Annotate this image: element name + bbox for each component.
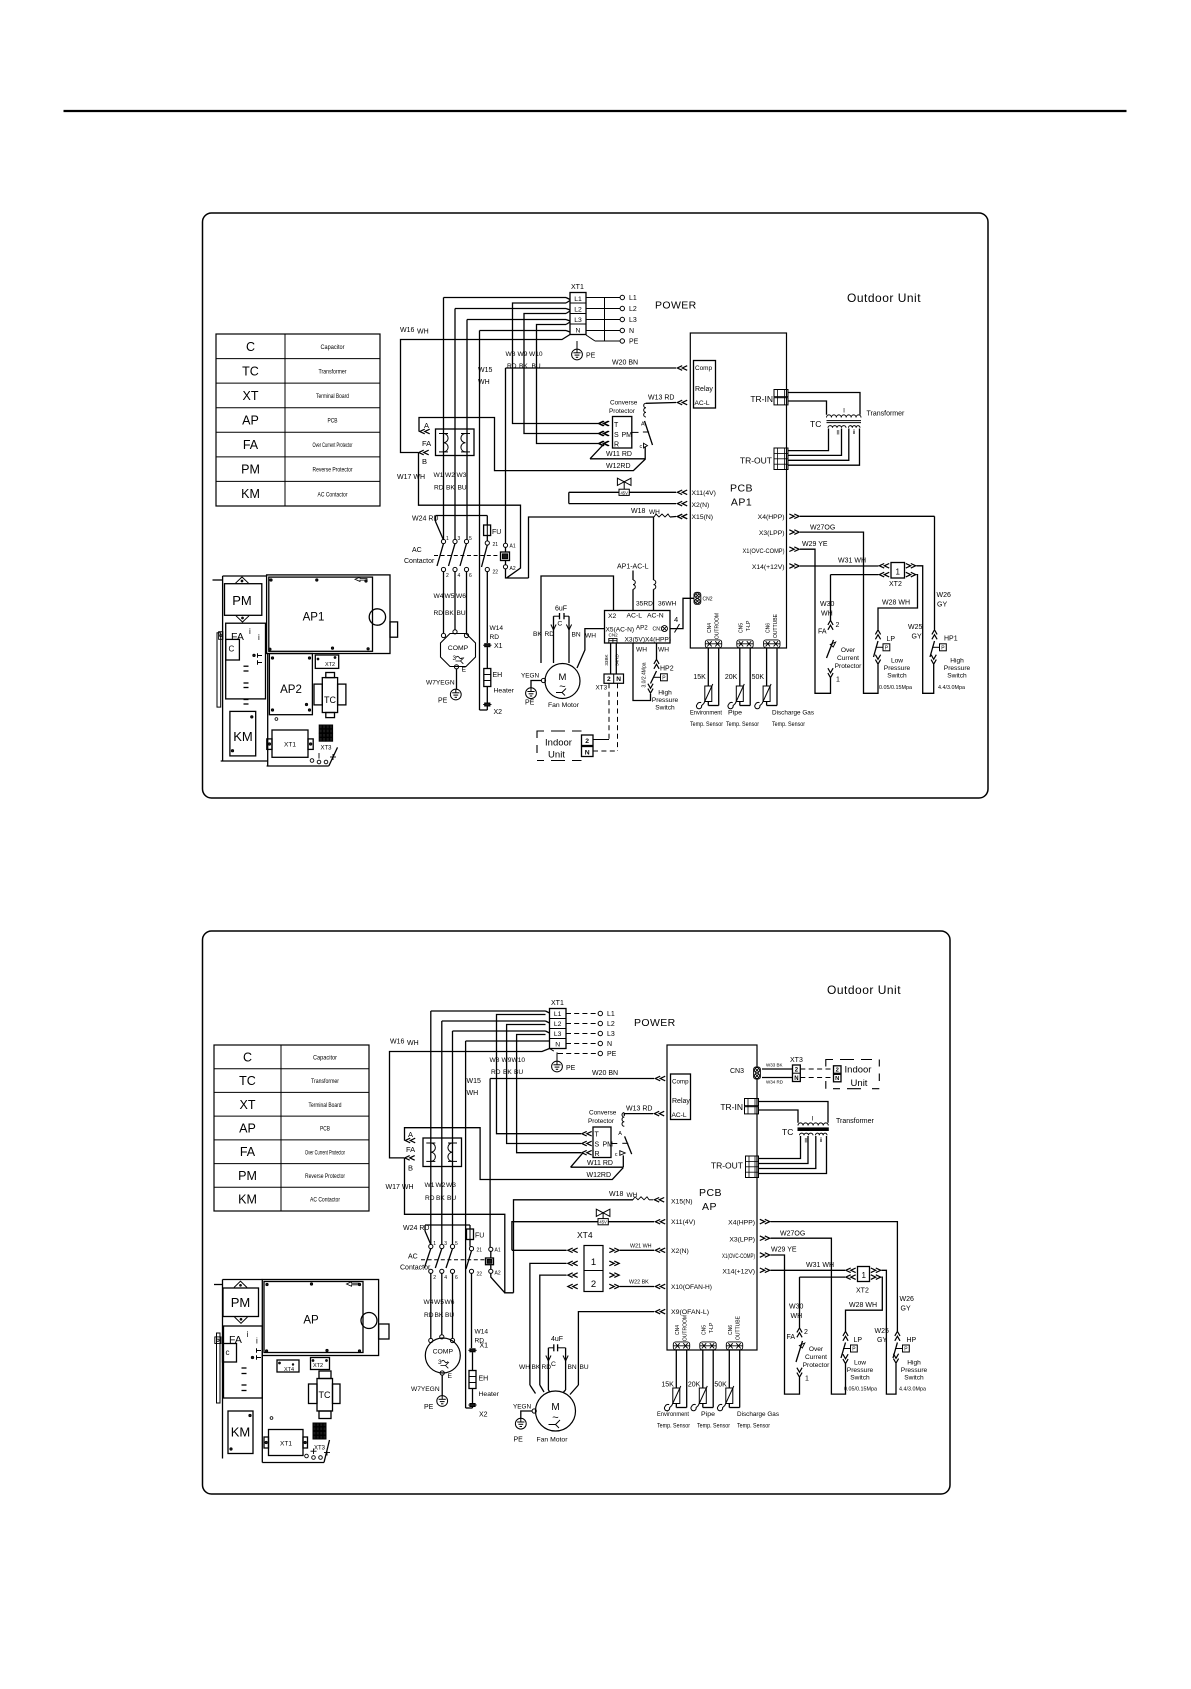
svg-text:C: C [243, 1050, 252, 1064]
svg-text:BU: BU [514, 1069, 523, 1076]
svg-text:POWER: POWER [655, 300, 697, 312]
svg-text:W1: W1 [425, 1182, 435, 1189]
svg-text:W20 BN: W20 BN [612, 360, 638, 367]
svg-text:W7YEGN: W7YEGN [426, 680, 455, 687]
svg-text:Current: Current [805, 1354, 827, 1361]
svg-text:High: High [907, 1360, 921, 1367]
svg-text:OUTTUBE: OUTTUBE [773, 613, 779, 638]
svg-text:AC-N: AC-N [647, 613, 664, 620]
svg-text:21: 21 [477, 1248, 483, 1254]
svg-text:Low: Low [854, 1360, 866, 1367]
svg-text:c: c [615, 1152, 618, 1158]
svg-text:X3(5V): X3(5V) [625, 637, 646, 644]
svg-text:HP2: HP2 [660, 666, 674, 673]
svg-text:X14(+12V): X14(+12V) [752, 564, 785, 571]
svg-text:WH: WH [585, 633, 596, 640]
svg-text:2: 2 [446, 573, 449, 579]
svg-text:FA: FA [406, 1145, 415, 1154]
svg-text:X2: X2 [479, 1412, 488, 1419]
svg-text:Reverse Protector: Reverse Protector [313, 467, 354, 474]
svg-text:FA: FA [240, 1145, 256, 1159]
svg-text:2: 2 [836, 1067, 839, 1073]
svg-text:W27OG: W27OG [780, 1231, 805, 1238]
svg-text:PE: PE [566, 1065, 576, 1072]
svg-text:1: 1 [861, 1271, 866, 1280]
svg-text:WH: WH [478, 379, 490, 386]
svg-text:21: 21 [493, 542, 499, 548]
svg-text:Unit: Unit [548, 750, 565, 761]
svg-text:RD: RD [490, 634, 500, 641]
svg-text:FA: FA [231, 631, 244, 643]
svg-text:Reverse Protector: Reverse Protector [305, 1173, 346, 1180]
svg-text:Heater: Heater [494, 688, 515, 695]
svg-text:Transformer: Transformer [311, 1078, 340, 1085]
svg-text:A1: A1 [495, 1248, 501, 1254]
svg-text:X10(OFAN-H): X10(OFAN-H) [671, 1284, 712, 1291]
svg-text:L3: L3 [574, 317, 582, 324]
svg-text:TC: TC [782, 1127, 793, 1137]
svg-text:Contactor: Contactor [400, 1265, 431, 1272]
svg-text:Converse: Converse [589, 1110, 617, 1117]
svg-text:L1: L1 [629, 295, 637, 302]
svg-text:WH: WH [821, 611, 833, 618]
svg-text:W18: W18 [631, 508, 646, 515]
svg-text:N: N [616, 676, 621, 683]
svg-text:TC: TC [324, 695, 336, 705]
svg-text:N: N [607, 1041, 612, 1048]
svg-text:AC Contactor: AC Contactor [310, 1197, 341, 1204]
svg-text:BK: BK [532, 1364, 541, 1371]
svg-text:X4(HPP): X4(HPP) [645, 637, 671, 644]
svg-text:KM: KM [241, 487, 260, 501]
svg-text:Over: Over [809, 1346, 824, 1353]
svg-text:WH: WH [467, 1090, 479, 1097]
svg-text:XT1: XT1 [551, 1000, 564, 1007]
svg-text:E: E [462, 667, 467, 674]
svg-text:FU: FU [492, 529, 501, 536]
svg-text:Comp: Comp [695, 365, 712, 372]
svg-text:AP1: AP1 [731, 497, 752, 509]
svg-text:PM: PM [241, 463, 260, 477]
svg-text:High: High [950, 658, 964, 665]
svg-text:N: N [585, 750, 590, 757]
svg-text:Outdoor Unit: Outdoor Unit [847, 291, 921, 305]
svg-text:~: ~ [559, 681, 565, 693]
svg-text:B: B [408, 1164, 413, 1173]
svg-text:W20 BN: W20 BN [592, 1070, 618, 1077]
svg-text:i: i [256, 1337, 258, 1346]
svg-text:L2: L2 [607, 1021, 615, 1028]
svg-text:N: N [629, 328, 634, 335]
svg-text:WH: WH [658, 647, 669, 654]
svg-text:Temp. Sensor: Temp. Sensor [690, 721, 724, 728]
svg-text:R: R [595, 1151, 600, 1158]
svg-text:W30: W30 [789, 1304, 804, 1311]
svg-text:TR-OUT: TR-OUT [711, 1161, 743, 1171]
svg-text:X11(4V): X11(4V) [671, 1219, 695, 1226]
svg-text:45V: 45V [620, 490, 628, 495]
svg-text:CN4: CN4 [675, 1325, 681, 1335]
svg-text:RD: RD [507, 363, 517, 370]
svg-text:LP: LP [854, 1337, 863, 1344]
svg-text:ii: ii [820, 1138, 823, 1144]
svg-text:4: 4 [444, 1275, 447, 1281]
svg-text:CN2: CN2 [703, 597, 713, 603]
svg-text:Pressure: Pressure [652, 697, 679, 704]
svg-text:OUTROOM: OUTROOM [683, 1315, 689, 1341]
svg-text:36WH: 36WH [658, 601, 677, 608]
svg-text:W2: W2 [436, 1182, 446, 1189]
svg-text:PM: PM [232, 593, 252, 608]
svg-text:1: 1 [895, 568, 900, 577]
svg-text:W31 WH: W31 WH [806, 1262, 834, 1269]
svg-text:RD: RD [542, 1364, 552, 1371]
svg-text:L2: L2 [629, 306, 637, 313]
svg-text:22: 22 [477, 1272, 483, 1278]
svg-text:5: 5 [455, 1241, 458, 1247]
svg-text:W12RD: W12RD [606, 463, 631, 470]
svg-text:PCB: PCB [699, 1187, 722, 1199]
svg-text:FA: FA [787, 1334, 796, 1341]
svg-text:W16: W16 [390, 1039, 405, 1046]
svg-text:A: A [618, 1131, 622, 1137]
svg-text:W3: W3 [457, 472, 467, 479]
svg-text:BK: BK [446, 485, 455, 492]
svg-text:PE: PE [586, 353, 596, 360]
svg-text:W28 WH: W28 WH [849, 1302, 877, 1309]
svg-text:AC-L: AC-L [695, 400, 710, 407]
svg-text:Protector: Protector [609, 408, 636, 415]
svg-text:PCB: PCB [730, 483, 753, 495]
svg-text:2: 2 [433, 1275, 436, 1281]
svg-text:TR-OUT: TR-OUT [740, 456, 772, 466]
svg-text:X15(N): X15(N) [671, 1199, 693, 1206]
svg-text:Protector: Protector [588, 1118, 615, 1125]
svg-text:WH: WH [407, 1040, 419, 1047]
svg-text:RD: RD [491, 1069, 501, 1076]
svg-text:i: i [249, 627, 251, 636]
svg-text:L3: L3 [629, 317, 637, 324]
svg-text:W14: W14 [475, 1329, 489, 1336]
svg-text:Relay: Relay [695, 386, 713, 393]
svg-text:R: R [614, 442, 619, 449]
svg-text:i: i [258, 633, 260, 642]
svg-text:W5: W5 [445, 593, 455, 600]
svg-text:XT4: XT4 [577, 1230, 593, 1240]
svg-text:TC: TC [810, 419, 821, 429]
svg-text:XT2: XT2 [313, 1363, 323, 1369]
svg-text:Capacitor: Capacitor [313, 1054, 338, 1061]
svg-text:A: A [408, 1130, 413, 1139]
svg-text:W3: W3 [446, 1182, 456, 1189]
svg-text:L1: L1 [554, 1011, 562, 1018]
svg-text:22: 22 [493, 570, 499, 576]
svg-text:A1: A1 [510, 544, 516, 550]
svg-text:PM: PM [238, 1169, 257, 1183]
svg-text:B: B [422, 457, 427, 466]
svg-text:GY: GY [912, 634, 922, 641]
svg-text:XT4: XT4 [284, 1367, 294, 1373]
svg-text:Switch: Switch [887, 673, 907, 680]
svg-text:T-LP: T-LP [746, 620, 752, 631]
svg-text:AP1: AP1 [303, 612, 325, 624]
svg-text:CN5: CN5 [739, 623, 745, 633]
svg-text:Fan Motor: Fan Motor [537, 1437, 569, 1444]
svg-text:Converse: Converse [610, 400, 638, 407]
svg-text:A2: A2 [495, 1271, 501, 1277]
svg-text:Comp: Comp [672, 1079, 689, 1086]
svg-text:CN6: CN6 [765, 623, 771, 633]
svg-text:Outdoor Unit: Outdoor Unit [827, 983, 901, 997]
svg-text:AC: AC [408, 1254, 418, 1261]
svg-text:XT3: XT3 [596, 685, 608, 692]
svg-text:BK: BK [436, 1195, 445, 1202]
svg-text:Environment: Environment [690, 710, 722, 717]
svg-text:W14: W14 [490, 625, 504, 632]
svg-text:15K: 15K [693, 674, 706, 681]
svg-text:X1: X1 [480, 1343, 489, 1350]
svg-text:2: 2 [591, 1279, 596, 1290]
svg-text:W1: W1 [434, 472, 444, 479]
svg-text:X2(N): X2(N) [692, 502, 710, 509]
svg-text:HP1: HP1 [944, 636, 958, 643]
svg-text:L3: L3 [554, 1031, 562, 1038]
svg-text:CN2: CN2 [609, 633, 619, 638]
svg-text:X1(OVC-COMP): X1(OVC-COMP) [722, 1253, 755, 1260]
svg-text:WH: WH [519, 1364, 530, 1371]
svg-text:XT3: XT3 [320, 746, 332, 752]
svg-text:W8: W8 [506, 351, 516, 358]
svg-text:Temp. Sensor: Temp. Sensor [657, 1423, 691, 1430]
svg-text:TC: TC [239, 1074, 256, 1088]
svg-text:BU: BU [457, 610, 466, 617]
svg-text:Over Current Protector: Over Current Protector [313, 442, 354, 449]
svg-text:4: 4 [674, 615, 678, 624]
svg-text:AP: AP [242, 414, 259, 428]
svg-text:W13 RD: W13 RD [626, 1106, 652, 1113]
svg-text:C: C [246, 340, 255, 354]
svg-text:50K: 50K [752, 674, 765, 681]
svg-text:PE: PE [525, 700, 535, 707]
svg-text:L2: L2 [574, 307, 582, 314]
svg-text:W27OG: W27OG [810, 525, 835, 532]
svg-text:15K: 15K [661, 1382, 674, 1389]
svg-text:FA: FA [229, 1334, 242, 1346]
svg-text:2: 2 [585, 738, 589, 745]
svg-text:W10: W10 [512, 1057, 526, 1064]
svg-text:Temp. Sensor: Temp. Sensor [737, 1423, 771, 1430]
svg-text:W29 YE: W29 YE [771, 1247, 797, 1254]
svg-text:1: 1 [591, 1257, 596, 1268]
svg-text:W10: W10 [529, 351, 543, 358]
svg-text:35RD: 35RD [636, 601, 653, 608]
svg-text:W13 RD: W13 RD [648, 395, 674, 402]
svg-text:S: S [595, 1142, 600, 1149]
svg-text:X2: X2 [608, 613, 617, 620]
svg-text:Transformer: Transformer [319, 368, 348, 375]
svg-text:PCB: PCB [320, 1126, 330, 1133]
svg-text:AP: AP [239, 1122, 256, 1136]
svg-text:W4: W4 [434, 593, 444, 600]
svg-text:PE: PE [438, 698, 448, 705]
svg-text:W15: W15 [467, 1078, 482, 1085]
svg-text:XT3: XT3 [790, 1057, 803, 1064]
svg-text:X14(+12V): X14(+12V) [722, 1268, 755, 1275]
svg-text:WH: WH [627, 1192, 638, 1199]
svg-text:X2(N): X2(N) [671, 1248, 689, 1255]
svg-text:Environment: Environment [657, 1411, 689, 1418]
svg-text:AP: AP [702, 1201, 717, 1213]
svg-text:GY: GY [937, 602, 947, 609]
svg-text:PE: PE [424, 1404, 434, 1411]
svg-text:E: E [448, 1373, 453, 1380]
svg-text:Switch: Switch [904, 1375, 924, 1382]
svg-text:ii: ii [853, 430, 856, 436]
svg-text:HP: HP [907, 1337, 917, 1344]
svg-text:T: T [595, 1132, 600, 1139]
svg-text:Over Current Protector: Over Current Protector [305, 1149, 346, 1156]
svg-text:Heater: Heater [479, 1391, 500, 1398]
svg-text:COMP: COMP [433, 1349, 454, 1356]
svg-text:Pipe: Pipe [728, 710, 742, 717]
svg-text:XT: XT [240, 1098, 256, 1112]
svg-text:COMP: COMP [448, 645, 469, 652]
svg-text:XT3: XT3 [314, 1446, 326, 1452]
svg-text:2: 2 [607, 676, 611, 683]
svg-text:WH: WH [417, 329, 429, 336]
svg-text:XT2: XT2 [856, 1288, 869, 1295]
svg-text:RD: RD [425, 1195, 435, 1202]
svg-text:Transformer: Transformer [836, 1118, 875, 1125]
svg-text:S: S [614, 432, 619, 439]
svg-text:0.05/0.15Mpa: 0.05/0.15Mpa [844, 1387, 877, 1393]
svg-text:YEGN: YEGN [521, 673, 539, 680]
svg-text:W33 BK: W33 BK [766, 1063, 783, 1068]
svg-text:I: I [812, 1116, 814, 1123]
svg-text:WH: WH [649, 509, 660, 516]
svg-text:BU: BU [580, 1364, 589, 1371]
svg-text:W26: W26 [937, 592, 952, 599]
svg-text:W34 RD: W34 RD [766, 1080, 784, 1085]
svg-text:W5: W5 [434, 1299, 444, 1306]
svg-text:Temp. Sensor: Temp. Sensor [697, 1423, 731, 1430]
svg-text:2: 2 [804, 1329, 808, 1336]
svg-text:PE: PE [607, 1051, 617, 1058]
svg-text:W24 RD: W24 RD [412, 516, 438, 523]
svg-text:W6: W6 [456, 593, 466, 600]
svg-text:Pipe: Pipe [701, 1411, 715, 1418]
svg-text:W26: W26 [900, 1296, 915, 1303]
svg-text:Terminal Board: Terminal Board [316, 393, 349, 400]
svg-text:TR-IN: TR-IN [720, 1102, 743, 1112]
svg-text:N: N [555, 1042, 560, 1049]
svg-text:W9: W9 [502, 1057, 512, 1064]
svg-text:W17 WH: W17 WH [397, 474, 425, 481]
svg-text:LP: LP [887, 636, 896, 643]
svg-text:i: i [247, 1330, 249, 1339]
svg-text:50K: 50K [714, 1382, 727, 1389]
svg-text:Pressure: Pressure [884, 665, 911, 672]
svg-text:4: 4 [458, 573, 461, 579]
svg-text:X3(LPP): X3(LPP) [729, 1236, 755, 1243]
svg-text:XT1: XT1 [280, 1441, 292, 1448]
svg-text:POWER: POWER [634, 1017, 676, 1029]
svg-text:2: 2 [836, 622, 840, 629]
svg-text:W9: W9 [518, 351, 528, 358]
svg-text:1: 1 [446, 536, 449, 542]
svg-text:20K: 20K [688, 1382, 701, 1389]
svg-text:W4: W4 [424, 1299, 434, 1306]
svg-text:W17 WH: W17 WH [386, 1184, 414, 1191]
svg-text:X4(HPP): X4(HPP) [758, 514, 785, 521]
svg-text:A: A [424, 421, 429, 430]
svg-text:L1: L1 [574, 296, 582, 303]
svg-text:OUTROOM: OUTROOM [715, 613, 721, 639]
svg-text:AP2: AP2 [636, 625, 648, 632]
svg-text:BU: BU [447, 1195, 456, 1202]
svg-text:W11 RD: W11 RD [587, 1160, 613, 1167]
svg-text:FU: FU [475, 1233, 484, 1240]
svg-text:2: 2 [795, 1068, 799, 1074]
svg-text:TC: TC [319, 1390, 331, 1400]
svg-text:AC: AC [412, 547, 422, 554]
svg-text:6uF: 6uF [555, 606, 567, 613]
svg-text:EH: EH [493, 672, 503, 679]
svg-text:W30: W30 [820, 601, 835, 608]
svg-text:CN3: CN3 [730, 1068, 744, 1075]
svg-text:CN4: CN4 [707, 623, 713, 633]
svg-text:Low: Low [891, 658, 903, 665]
svg-text:AP1-AC-L: AP1-AC-L [617, 564, 649, 571]
svg-text:RD: RD [434, 610, 444, 617]
svg-text:AC-L: AC-L [672, 1112, 687, 1119]
svg-text:X15(N): X15(N) [692, 514, 714, 521]
svg-text:N: N [576, 328, 581, 335]
svg-text:PM: PM [622, 432, 633, 439]
svg-text:KM: KM [233, 729, 253, 744]
svg-text:Pressure: Pressure [847, 1367, 874, 1374]
svg-text:WH: WH [791, 1313, 803, 1320]
svg-text:TC: TC [242, 364, 259, 378]
svg-text:c: c [226, 1348, 230, 1357]
svg-text:AP: AP [303, 1315, 319, 1327]
svg-text:BK: BK [435, 1312, 444, 1319]
svg-text:W29 YE: W29 YE [802, 541, 828, 548]
svg-text:AC Contactor: AC Contactor [318, 491, 349, 498]
svg-text:X1(OVC-COMP): X1(OVC-COMP) [743, 548, 785, 555]
svg-text:Switch: Switch [850, 1375, 870, 1382]
svg-text:W2: W2 [445, 472, 455, 479]
svg-text:Switch: Switch [947, 673, 967, 680]
svg-text:c: c [640, 444, 643, 450]
svg-text:Unit: Unit [851, 1078, 868, 1089]
svg-text:RD: RD [424, 1312, 434, 1319]
svg-text:BK: BK [519, 363, 528, 370]
svg-text:X4(HPP): X4(HPP) [728, 1220, 755, 1227]
svg-text:Capacitor: Capacitor [321, 344, 346, 351]
svg-text:20K: 20K [725, 674, 738, 681]
svg-text:BN: BN [568, 1364, 577, 1371]
svg-text:PE: PE [629, 339, 639, 346]
svg-text:EH: EH [479, 1376, 489, 1383]
svg-text:PE: PE [514, 1437, 524, 1444]
svg-text:BN: BN [572, 632, 581, 639]
svg-text:W8: W8 [490, 1057, 500, 1064]
svg-text:W21 WH: W21 WH [630, 1243, 652, 1249]
svg-text:34RD: 34RD [615, 653, 620, 665]
svg-text:BU: BU [458, 485, 467, 492]
svg-text:X11(4V): X11(4V) [692, 490, 716, 497]
